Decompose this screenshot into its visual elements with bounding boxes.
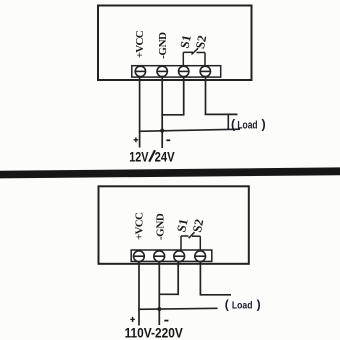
terminal 3 screw (S1) [174, 251, 185, 262]
wire link S1 to GND column [159, 293, 180, 295]
separator bar [0, 167, 340, 178]
wire W1 from +VCC down [138, 261, 140, 326]
wire W4 from S2 down [205, 77, 207, 115]
svg-text:+VCC: +VCC [134, 30, 146, 58]
junction dot on W2 [160, 129, 164, 133]
terminal block TB1 [132, 66, 221, 77]
wire W1 from +VCC down [139, 77, 141, 148]
wire load drop [227, 114, 229, 130]
wire link S1 to GND column [161, 114, 184, 116]
terminal 1 screw (+VCC) [135, 66, 145, 76]
polarity - label [164, 320, 168, 322]
wire S2 to load [205, 113, 238, 115]
terminal 4 screw (S2) [195, 251, 206, 262]
junction dot on W2 [157, 307, 161, 311]
wire S2 to load [200, 294, 231, 296]
wire W2 from -GND down [161, 77, 163, 149]
wire W4 from S2 down [199, 261, 201, 295]
polarity - label [166, 139, 170, 141]
terminal 2 screw (-GND) [157, 66, 167, 76]
terminal 1 screw (+VCC) [134, 251, 145, 262]
controller box U2 [99, 186, 249, 263]
svg-text:+VCC: +VCC [134, 212, 146, 240]
controller box U1 [98, 6, 252, 81]
slash of 12V/24V [149, 150, 155, 161]
svg-text:-GND: -GND [154, 213, 166, 240]
terminal 4 screw (S2) [200, 66, 210, 76]
wire load feed from +VCC [139, 129, 240, 131]
wire W2 from -GND down [158, 261, 160, 325]
polarity + label [134, 137, 139, 142]
svg-text:110V-220V: 110V-220V [125, 326, 183, 340]
wire W3 from S1 down [183, 77, 185, 115]
polarity + label [130, 317, 135, 322]
relay contact K1 between S1 and S2 [183, 48, 205, 66]
wire load feed from +VCC [138, 308, 217, 309]
terminal 3 screw (S1) [179, 66, 189, 76]
wire W3 from S1 down [177, 261, 179, 294]
terminal block TB2 [131, 250, 212, 261]
relay contact K2 between S1 and S2 [181, 232, 200, 250]
terminal 2 screw (-GND) [154, 251, 165, 262]
svg-text:-GND: -GND [157, 32, 169, 59]
